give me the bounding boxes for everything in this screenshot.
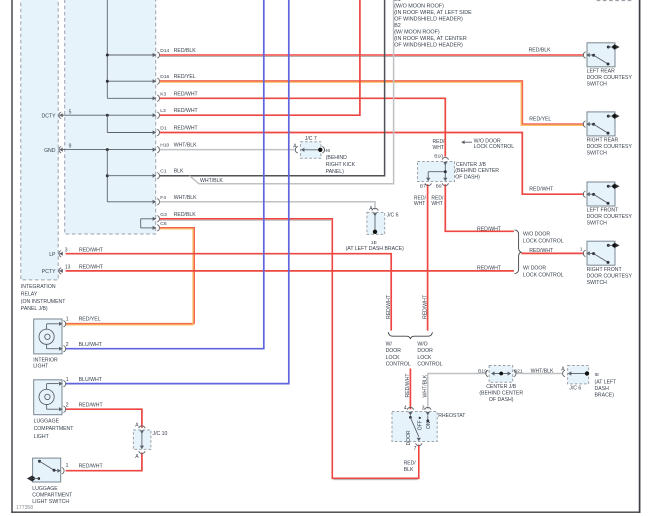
svg-text:1E: 1E (371, 240, 378, 246)
svg-text:OF DASH): OF DASH) (455, 175, 480, 181)
svg-text:OFF: OFF (418, 420, 424, 430)
svg-text:OF DASH): OF DASH) (489, 397, 514, 403)
svg-text:B9: B9 (436, 184, 442, 190)
svg-text:BLK: BLK (174, 169, 184, 175)
svg-text:WHT/BLK: WHT/BLK (531, 369, 554, 375)
svg-text:RED/WHT: RED/WHT (405, 373, 411, 398)
svg-text:D1: D1 (160, 126, 167, 132)
svg-text:PCTY: PCTY (42, 269, 56, 275)
svg-text:1: 1 (66, 377, 69, 383)
svg-text:RED/WHT: RED/WHT (477, 227, 502, 233)
svg-text:W/: W/ (386, 341, 393, 347)
svg-text:(ON INSTRUMENT: (ON INSTRUMENT (21, 299, 66, 305)
svg-text:J/C 10: J/C 10 (153, 431, 168, 437)
svg-text:(AT LEFT: (AT LEFT (595, 379, 618, 385)
svg-text:(IN ROOF WIRE, AT CENTER: (IN ROOF WIRE, AT CENTER (394, 36, 467, 42)
svg-text:BLU/WHT: BLU/WHT (79, 342, 103, 348)
svg-text:DASH: DASH (595, 386, 610, 392)
svg-text:BLK: BLK (404, 467, 414, 473)
svg-text:CONTROL: CONTROL (386, 362, 411, 368)
svg-text:LOCK CONTROL: LOCK CONTROL (474, 144, 515, 150)
svg-text:WHT/BLK: WHT/BLK (200, 178, 223, 184)
svg-text:PANEL): PANEL) (326, 169, 344, 175)
svg-text:LEFT REAR: LEFT REAR (587, 69, 615, 75)
svg-text:SWITCH: SWITCH (587, 151, 608, 157)
svg-text:CENTER J/B: CENTER J/B (456, 162, 487, 168)
svg-text:LOCK: LOCK (417, 355, 432, 361)
svg-text:LUGGAGE: LUGGAGE (34, 419, 60, 425)
svg-text:177358: 177358 (16, 505, 33, 511)
svg-text:BLU/WHT: BLU/WHT (79, 377, 103, 383)
svg-text:5: 5 (69, 109, 72, 115)
svg-text:C1: C1 (160, 169, 167, 175)
svg-text:RED/YEL: RED/YEL (79, 316, 101, 322)
svg-text:J/C 6: J/C 6 (569, 386, 581, 392)
svg-text:WHT: WHT (433, 145, 444, 151)
svg-text:COMPARTMENT: COMPARTMENT (34, 426, 75, 432)
svg-text:RED/BLK: RED/BLK (174, 212, 197, 218)
svg-text:RED/WHT: RED/WHT (79, 402, 104, 408)
svg-text:(AT LEFT DASH BRACE): (AT LEFT DASH BRACE) (346, 246, 405, 252)
svg-text:IE: IE (595, 372, 600, 378)
svg-text:CONTROL: CONTROL (417, 362, 442, 368)
svg-text:LEFT FRONT: LEFT FRONT (587, 208, 619, 214)
svg-text:DOOR: DOOR (386, 348, 402, 354)
svg-text:LUGGAGE: LUGGAGE (32, 486, 58, 492)
svg-text:BRACE): BRACE) (595, 392, 615, 398)
svg-text:DOOR: DOOR (417, 348, 433, 354)
svg-text:RED/WHT: RED/WHT (477, 266, 502, 272)
svg-text:RED/WHT: RED/WHT (386, 294, 392, 319)
svg-text:F4: F4 (160, 195, 166, 201)
svg-text:SWITCH: SWITCH (587, 82, 608, 88)
svg-text:W/O DOOR: W/O DOOR (523, 232, 550, 238)
svg-text:DOOR COURTESY: DOOR COURTESY (587, 273, 633, 279)
svg-text:13: 13 (65, 264, 71, 270)
svg-text:RED/BLK: RED/BLK (529, 48, 552, 54)
svg-text:WHT: WHT (414, 201, 425, 207)
svg-text:DOOR: DOOR (406, 430, 412, 445)
svg-text:RED/WHT: RED/WHT (174, 108, 199, 114)
svg-text:RED/WHT: RED/WHT (79, 264, 104, 270)
svg-text:4: 4 (404, 406, 407, 412)
svg-text:L3: L3 (160, 108, 166, 114)
svg-text:RED/: RED/ (404, 460, 417, 466)
svg-text:3: 3 (422, 406, 425, 412)
svg-text:(W/O MOON ROOF): (W/O MOON ROOF) (394, 4, 444, 10)
svg-text:RIGHT FRONT: RIGHT FRONT (587, 267, 623, 273)
svg-text:W/O: W/O (417, 341, 427, 347)
svg-text:(BEHIND CENTER: (BEHIND CENTER (479, 390, 523, 396)
svg-text:H10: H10 (160, 143, 169, 149)
svg-text:H6: H6 (324, 148, 331, 154)
svg-text:1: 1 (580, 246, 583, 252)
svg-text:A: A (135, 454, 139, 460)
svg-text:OF WINDSHIELD HEADER): OF WINDSHIELD HEADER) (394, 17, 463, 23)
svg-text:RED/BLK: RED/BLK (174, 48, 197, 54)
svg-text:J/C 7: J/C 7 (305, 136, 317, 142)
svg-text:WHT: WHT (431, 201, 442, 207)
svg-text:RED/WHT: RED/WHT (79, 463, 104, 469)
svg-text:OF WINDSHIELD HEADER): OF WINDSHIELD HEADER) (394, 42, 463, 48)
svg-text:W/ DOOR: W/ DOOR (523, 266, 546, 272)
svg-text:LOCK: LOCK (386, 355, 401, 361)
svg-text:7: 7 (414, 446, 417, 452)
svg-text:WHT/BLK: WHT/BLK (174, 195, 197, 201)
svg-text:RED/WHT: RED/WHT (529, 186, 554, 192)
svg-text:DOOR COURTESY: DOOR COURTESY (587, 144, 633, 150)
svg-text:LP: LP (49, 252, 56, 258)
svg-text:(BEHIND CENTER: (BEHIND CENTER (455, 168, 499, 174)
svg-text:WHT/BLK: WHT/BLK (423, 374, 429, 397)
svg-text:LOCK CONTROL: LOCK CONTROL (523, 272, 564, 278)
svg-text:D16: D16 (160, 74, 169, 80)
svg-text:WHT/BLK: WHT/BLK (174, 143, 197, 149)
svg-text:K3: K3 (160, 91, 166, 97)
svg-text:D14: D14 (160, 48, 169, 54)
svg-text:1: 1 (66, 316, 69, 322)
svg-text:RHEOSTAT: RHEOSTAT (438, 413, 466, 419)
svg-text:RED/YEL: RED/YEL (174, 74, 196, 80)
svg-text:SWITCH: SWITCH (587, 221, 608, 227)
svg-text:B2: B2 (394, 23, 401, 29)
svg-text:RED/WHT: RED/WHT (174, 91, 199, 97)
svg-text:COMPARTMENT: COMPARTMENT (32, 492, 73, 498)
svg-text:B21: B21 (514, 369, 523, 375)
svg-text:B7: B7 (420, 184, 426, 190)
svg-text:J/C 6: J/C 6 (387, 213, 399, 219)
svg-text:LIGHT: LIGHT (34, 434, 50, 440)
svg-text:ON: ON (426, 421, 432, 429)
svg-text:(W/ MOON ROOF): (W/ MOON ROOF) (394, 29, 440, 35)
svg-text:B10: B10 (434, 154, 443, 160)
svg-text:LIGHT SWITCH: LIGHT SWITCH (32, 499, 69, 505)
svg-text:SWITCH: SWITCH (587, 280, 608, 286)
svg-text:LIGHT: LIGHT (33, 363, 49, 369)
svg-text:INTEGRATION: INTEGRATION (21, 284, 56, 290)
svg-text:(BEHIND: (BEHIND (326, 155, 347, 161)
svg-text:3: 3 (65, 248, 68, 254)
svg-text:PANEL J/B): PANEL J/B) (21, 306, 48, 312)
svg-text:9: 9 (69, 144, 72, 150)
svg-text:GND: GND (44, 148, 56, 154)
svg-text:CENTER J/B: CENTER J/B (486, 384, 517, 390)
svg-text:RED/WHT: RED/WHT (529, 248, 554, 254)
svg-text:B19: B19 (478, 369, 487, 375)
svg-text:1: 1 (66, 463, 69, 469)
svg-text:RED/WHT: RED/WHT (422, 294, 428, 319)
svg-text:(IN ROOF WIRE, AT LEFT SIDE: (IN ROOF WIRE, AT LEFT SIDE (394, 10, 472, 16)
svg-text:A: A (561, 367, 565, 373)
svg-text:LOCK CONTROL: LOCK CONTROL (523, 239, 564, 245)
svg-text:2: 2 (66, 342, 69, 348)
svg-text:RED/WHT: RED/WHT (79, 248, 104, 254)
svg-text:RIGHT KICK: RIGHT KICK (326, 162, 356, 168)
svg-text:C6: C6 (160, 221, 167, 227)
svg-text:G3: G3 (160, 212, 167, 218)
svg-text:DOOR COURTESY: DOOR COURTESY (587, 75, 633, 81)
svg-text:2: 2 (66, 402, 69, 408)
svg-text:RELAY: RELAY (21, 291, 38, 297)
svg-text:DCTY: DCTY (42, 113, 57, 119)
svg-text:DOOR COURTESY: DOOR COURTESY (587, 214, 633, 220)
svg-text:RED/WHT: RED/WHT (174, 126, 199, 132)
svg-text:RIGHT REAR: RIGHT REAR (587, 138, 619, 144)
svg-text:RED/YEL: RED/YEL (529, 117, 551, 123)
